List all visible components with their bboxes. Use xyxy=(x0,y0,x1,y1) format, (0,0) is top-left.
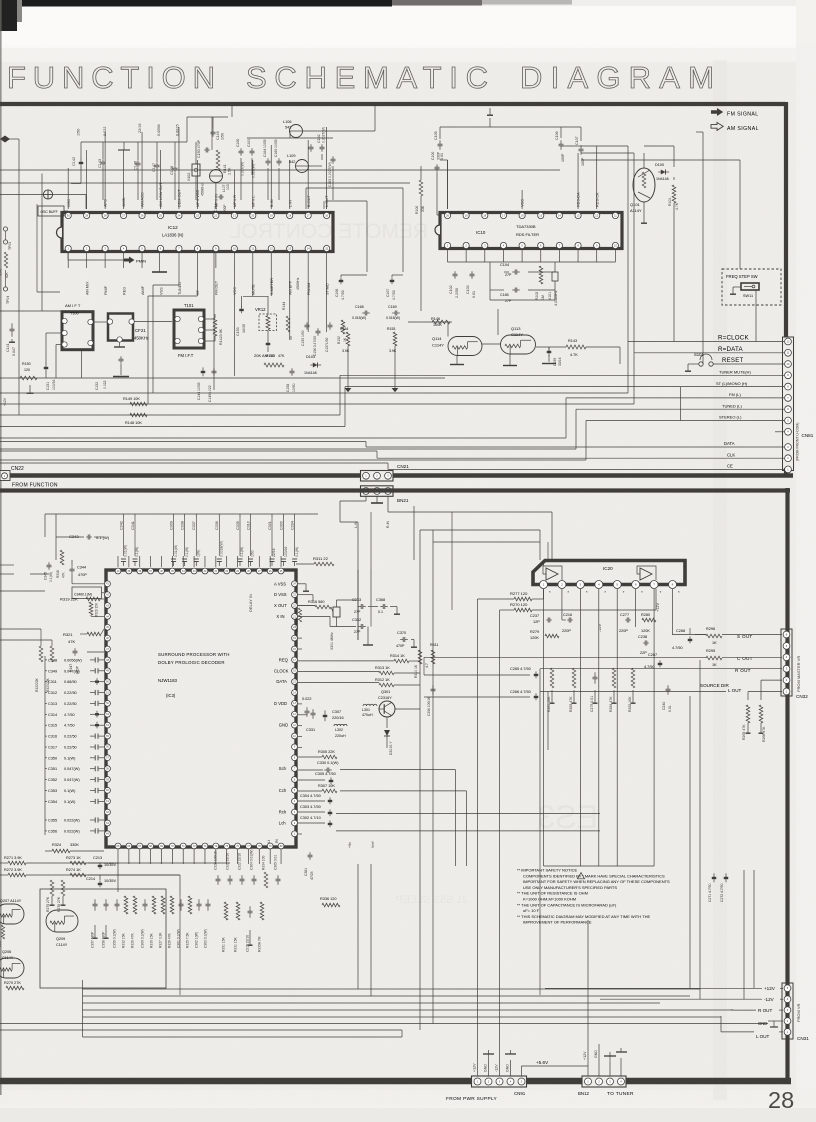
pin 52 IC3 xyxy=(105,700,111,706)
pin 1 IC3 xyxy=(292,831,298,837)
capacitor C347 xyxy=(69,648,80,674)
resistor S142 82K xyxy=(0,252,9,278)
resistor R278 21K xyxy=(0,925,5,947)
pin 28 IC3 xyxy=(246,568,252,574)
resistor R330 xyxy=(150,896,156,948)
pin 18 IC12 xyxy=(287,200,293,219)
pin 34 IC3 xyxy=(180,568,186,574)
scanner left edge line xyxy=(0,0,2,1095)
pin 28 IC12 xyxy=(102,199,108,219)
pin 17 IC10 xyxy=(500,212,506,218)
resistor R321 xyxy=(63,629,104,644)
resistor R324 xyxy=(45,843,104,853)
pin 25 IC12 xyxy=(157,182,163,219)
pin 10 IC3 xyxy=(292,733,298,739)
pin 7 IC10 xyxy=(556,242,562,248)
pin 3 IC12 xyxy=(102,245,108,295)
pin 58 IC3 xyxy=(105,766,111,772)
capacitor C370 xyxy=(396,631,417,648)
capacitor C311 xyxy=(45,678,104,685)
resistor R351 xyxy=(222,902,228,952)
inductor L109 xyxy=(287,154,309,173)
connector CN81 xyxy=(783,337,794,473)
capacitor C317 xyxy=(45,744,104,749)
pin 12 IC3 xyxy=(292,711,298,717)
capacitor C315 xyxy=(45,722,104,729)
pin 23 IC3 xyxy=(274,592,297,598)
pin 13 IC3 xyxy=(274,700,297,706)
pin 80 IC3 xyxy=(278,843,284,849)
inductor L302 xyxy=(334,724,347,738)
capacitor C359 xyxy=(113,899,120,948)
osc buffer box xyxy=(38,206,68,216)
pin 35 IC3 xyxy=(169,568,175,574)
capacitor C163 xyxy=(328,156,336,187)
pin 72 IC3 xyxy=(191,843,197,849)
pin 73 IC3 xyxy=(202,843,208,849)
resistor R266 xyxy=(759,705,767,742)
wire top cluster rails xyxy=(232,106,375,200)
capacitor C303 xyxy=(300,805,332,816)
pin 78 IC3 xyxy=(256,843,262,849)
capacitor C153 xyxy=(236,296,246,336)
pin 12 IC12 xyxy=(268,245,274,295)
wire bus y170 xyxy=(0,169,560,171)
wire DATA xyxy=(0,442,784,448)
ground C368 xyxy=(390,607,400,615)
wire C265 line xyxy=(424,657,530,675)
capacitor C162 xyxy=(317,127,326,152)
wire STEREO L xyxy=(0,421,784,461)
note important safety notice xyxy=(517,868,670,925)
pin 65 IC3 xyxy=(115,843,121,849)
pin 11 IC10 xyxy=(612,212,618,218)
pin 8 IC10 xyxy=(575,242,581,248)
transistor Q207 A114Y xyxy=(0,899,24,924)
pin 3 IC3 xyxy=(279,809,298,815)
wire R277 left xyxy=(478,589,544,1076)
resistor R142 xyxy=(204,314,223,345)
pin 23 IC12 xyxy=(194,189,200,218)
capacitor C353 xyxy=(45,788,104,793)
ceramic filter CF21 xyxy=(107,314,149,348)
pin 39 IC3 xyxy=(126,568,132,574)
capacitor C354 xyxy=(45,799,104,804)
pin 2 IC12 xyxy=(84,245,90,295)
capacitor C310 xyxy=(246,514,254,566)
pin 79 IC3 xyxy=(267,843,273,849)
capacitor C358 xyxy=(102,899,109,948)
pin 33 IC3 xyxy=(191,568,197,574)
pin 47 IC3 xyxy=(105,646,111,652)
pin 19 IC10 xyxy=(463,212,469,218)
node FM input diamond xyxy=(0,136,10,143)
pin 30 IC3 xyxy=(224,568,230,574)
transistor Q301 C2316Y xyxy=(378,690,395,717)
pin 48 IC3 xyxy=(105,657,111,663)
capacitor cap 0.022 xyxy=(302,697,312,717)
label R OUT CN31 xyxy=(732,1008,783,1013)
pin 60 IC3 xyxy=(105,787,111,793)
pin 75 IC3 xyxy=(224,843,230,849)
transistor Q206 C114Y xyxy=(0,950,24,978)
resistor R150 xyxy=(20,362,37,380)
capacitor C368 xyxy=(376,598,388,614)
wire FM L xyxy=(0,398,784,438)
capacitor C267 xyxy=(644,653,662,669)
pin 41 IC3 xyxy=(105,581,111,587)
resistor R327 xyxy=(159,896,165,948)
capacitor C338 xyxy=(180,514,188,566)
capacitor C168 xyxy=(352,305,370,320)
wire CLK xyxy=(0,451,784,458)
resistor R279 xyxy=(530,630,559,640)
pin 21 IC3 xyxy=(276,614,297,620)
connector CN32 xyxy=(781,629,792,696)
wire Sch route xyxy=(340,769,456,771)
capacitor C307 xyxy=(323,710,344,721)
capacitor C363 xyxy=(204,899,211,948)
pin 36 IC3 xyxy=(159,568,165,574)
wire BN21 pin3 drop xyxy=(388,496,552,610)
crystal X101 xyxy=(548,272,558,306)
wire TUNER MUTE xyxy=(0,375,784,415)
pin 68 IC3 xyxy=(148,843,154,849)
label L OUT CN31 xyxy=(721,1032,783,1039)
resistor R326 xyxy=(168,896,174,948)
resistor R277 xyxy=(510,591,532,601)
pin 29 IC12 xyxy=(84,212,90,218)
pin 22 IC12 xyxy=(213,194,219,219)
pin 6 IC3 xyxy=(292,777,298,783)
wire pin17 loop to C167 xyxy=(306,188,403,272)
wire transistor row xyxy=(408,309,620,366)
resistor R331 xyxy=(234,902,240,952)
wire L OUT line xyxy=(540,691,782,693)
PMIN signal arrow xyxy=(68,252,146,264)
capacitor C348 xyxy=(45,657,104,662)
wire CN81 pin4 drop xyxy=(775,431,784,433)
resistor R323 xyxy=(46,640,54,692)
wire CN91 pin risers xyxy=(473,1050,522,1076)
pin 40 IC3 xyxy=(115,568,121,574)
resistor R275 xyxy=(46,880,55,912)
resistor R273 xyxy=(66,856,86,865)
wire IC3 top pin stubs xyxy=(118,556,281,567)
pin 20 IC3 xyxy=(292,624,298,630)
pin 18 IC3 xyxy=(292,646,298,652)
resistor R320 xyxy=(89,602,104,617)
potentiometer VR12 xyxy=(243,296,277,358)
resistor R281 xyxy=(547,668,555,712)
resistor R314 xyxy=(298,654,420,663)
capacitor C151 xyxy=(44,363,56,390)
resistor R149 xyxy=(123,397,147,406)
tuner block border top xyxy=(0,102,786,106)
pin 19 IC3 xyxy=(292,635,298,641)
capacitor C158 xyxy=(286,368,296,392)
label +12V CN31 xyxy=(545,986,783,991)
wire IC20 pin drops xyxy=(544,589,673,866)
connector CN91 xyxy=(472,1076,527,1096)
capacitor C271 xyxy=(708,873,716,902)
pin 50 IC3 xyxy=(105,679,111,685)
pin 30 IC12 xyxy=(65,199,71,219)
resistor R274 xyxy=(66,868,86,877)
capacitor C333 xyxy=(352,598,366,614)
capacitor C365 xyxy=(274,855,281,885)
pin 56 IC3 xyxy=(105,744,111,750)
signal ground T row xyxy=(345,346,352,392)
wire Q101 rails xyxy=(561,132,740,364)
resistor R305 xyxy=(298,750,337,759)
capacitor C300 xyxy=(279,514,287,566)
resistor R270 xyxy=(510,602,532,612)
pin 27 IC12 xyxy=(120,197,126,218)
wire IC10 bottom loop xyxy=(490,262,555,300)
capacitor C156 xyxy=(313,328,321,356)
pin 71 IC3 xyxy=(180,843,186,849)
wire IC12 top pin risers xyxy=(68,127,326,209)
capacitor C165 xyxy=(274,139,282,165)
capacitor C352 xyxy=(45,777,104,782)
ghost bleedthrough text xyxy=(230,220,598,906)
capacitor C350 xyxy=(45,755,104,760)
pin 15 IC10 xyxy=(538,212,544,218)
capacitor C154 xyxy=(214,195,227,215)
capacitor C265 xyxy=(510,667,538,678)
connector CN31 xyxy=(782,983,793,1039)
pin 3 IC20 xyxy=(576,581,588,596)
pin 11 IC3 xyxy=(279,722,298,728)
op-amp IC12 LA1836 body xyxy=(57,213,334,252)
capacitor C335 xyxy=(236,514,244,566)
label +5.6V xyxy=(522,1060,589,1076)
wire R=CLOCK xyxy=(0,342,784,394)
resistor R101 xyxy=(668,185,679,210)
pin 20 IC10 xyxy=(444,212,450,218)
resistor R325 xyxy=(186,896,192,948)
surround block border bottom xyxy=(0,1078,791,1085)
capacitor C150 xyxy=(197,117,212,158)
transistor Q209 C114Y xyxy=(46,910,78,947)
capacitor C266 xyxy=(510,690,538,700)
pin 27 IC3 xyxy=(256,568,262,574)
pin 32 IC3 xyxy=(202,568,208,574)
ground left bus xyxy=(3,385,34,406)
resistor R153 xyxy=(387,327,397,353)
connector BN12 xyxy=(578,1076,626,1096)
resistor R282 xyxy=(628,668,636,712)
pin 61 IC3 xyxy=(105,798,111,804)
pin 1 IC10 xyxy=(444,242,450,248)
pin 9 IC3 xyxy=(292,744,298,750)
pin 37 IC3 xyxy=(148,568,154,574)
diode D103 xyxy=(304,355,321,375)
switch box FREQ STEP SW xyxy=(722,269,781,342)
resistor R148 xyxy=(125,413,147,425)
node crossed circle xyxy=(0,190,86,209)
wire pin16 loop to C166 xyxy=(324,201,367,272)
resistor R145 xyxy=(264,354,285,367)
wire IC3 bottom pin stubs xyxy=(118,849,281,864)
op-amp IC20 body xyxy=(533,561,685,585)
enclosure box Q209 xyxy=(40,889,166,988)
pin 51 IC3 xyxy=(105,690,111,696)
wire op-amp feedback xyxy=(543,562,656,580)
capacitor C334 xyxy=(290,514,298,566)
pin 26 IC12 xyxy=(139,192,145,219)
wire cluster rail y142 xyxy=(81,141,187,143)
resistor R100 xyxy=(415,166,425,311)
pin 1 IC12 xyxy=(65,245,71,251)
enclosure osc buffer xyxy=(37,204,60,292)
pin 2 IC20 xyxy=(558,581,570,596)
surround block border top xyxy=(0,488,790,492)
capacitor C305 xyxy=(315,772,336,784)
pin 8 IC12 xyxy=(194,245,200,295)
scanner top edge bar xyxy=(0,0,392,7)
label Lt Rt +9v Vref xyxy=(267,839,375,848)
resistor R313 xyxy=(298,666,420,675)
resistor R336 xyxy=(320,897,340,907)
pin 74 IC3 xyxy=(213,843,219,849)
pin 5 IC3 xyxy=(279,787,298,793)
wire BN21 pin1 drop xyxy=(340,496,366,522)
capacitor C106 xyxy=(555,131,565,162)
resistor R307 xyxy=(298,784,337,793)
capacitor C155 xyxy=(301,322,310,346)
resistor R319 xyxy=(60,597,104,602)
resistor R311 22 xyxy=(296,556,334,566)
capacitor C320 xyxy=(214,851,221,885)
pin 38 IC3 xyxy=(137,568,143,574)
resistor R334 xyxy=(262,856,268,888)
pin 21 IC12 xyxy=(231,195,237,219)
resistor R144 xyxy=(282,302,293,340)
capacitor C149 xyxy=(211,117,225,140)
pin 13 IC10 xyxy=(575,192,581,219)
resistor R312 xyxy=(298,678,420,687)
wire R OUT line xyxy=(540,668,782,670)
ground C332 xyxy=(363,640,373,645)
pin 7 IC3 xyxy=(279,766,298,772)
inductor L106 xyxy=(283,120,303,138)
pin 8 IC20 xyxy=(669,581,681,596)
pin 49 IC3 xyxy=(105,668,111,674)
capacitor C161 xyxy=(247,139,256,178)
pin 14 IC12 xyxy=(305,245,311,295)
wire IC12 bottom pin stubs xyxy=(68,252,326,376)
test point TP04 xyxy=(3,270,10,304)
pin 11 IC12 xyxy=(250,245,256,295)
resistor R315 xyxy=(295,608,302,632)
resistor R322 xyxy=(35,634,43,692)
pin 45 IC3 xyxy=(105,624,111,630)
tuner block border bottom bus bar xyxy=(0,473,793,478)
capacitor C145 xyxy=(208,368,217,402)
wire bottom bus lines xyxy=(0,980,768,1037)
capacitor C108 xyxy=(500,288,520,304)
transistor Q113 C114Y xyxy=(501,326,536,354)
resistor R280 xyxy=(641,613,656,633)
wire misc verticals xyxy=(358,387,681,1030)
wire pin7 TUNED stair xyxy=(153,252,179,393)
capacitor C302 xyxy=(300,816,332,827)
capacitor C164 xyxy=(263,139,271,165)
pin 4 IC10 xyxy=(500,242,506,248)
resistor R270b xyxy=(4,981,24,990)
capacitor C100 xyxy=(431,151,441,215)
ground A VSS xyxy=(298,584,309,591)
resistor R283 xyxy=(569,668,577,712)
pin 9 IC10 xyxy=(594,242,600,248)
pin 6 IC10 xyxy=(538,242,544,248)
wire ST MONO xyxy=(0,387,784,427)
resistor R310 xyxy=(414,650,422,678)
pin 17 IC3 xyxy=(279,657,298,663)
wire Cch route xyxy=(340,790,467,792)
resistor R296 xyxy=(706,627,722,645)
capacitor C322 xyxy=(238,853,245,885)
wire IC10 top rails xyxy=(440,118,581,209)
capacitor C349 xyxy=(45,668,104,673)
surround block border right xyxy=(785,488,789,1083)
capacitor C216 xyxy=(562,613,573,633)
op-amp IC10 TDA7330B body xyxy=(435,213,622,249)
capacitor C306 xyxy=(427,685,436,716)
inductor L301 xyxy=(362,704,377,717)
transistor Q101 A114Y xyxy=(630,168,655,213)
capacitor C147 xyxy=(152,124,161,200)
capacitor C309 xyxy=(169,514,177,566)
capacitor C268 xyxy=(672,629,692,650)
capacitor C357 xyxy=(91,899,98,948)
pin 5 IC20 xyxy=(613,581,625,596)
resistor R265 xyxy=(742,705,751,740)
capacitor C316 xyxy=(45,734,104,739)
wire left riser x42 xyxy=(41,174,43,312)
pin 5 IC12 xyxy=(139,245,145,295)
pin 46 IC3 xyxy=(105,635,111,641)
capacitor C313 xyxy=(45,701,104,706)
capacitor C381 xyxy=(304,852,314,880)
pin 16 IC10 xyxy=(519,199,525,219)
legend FM SIGNAL arrow xyxy=(711,108,723,116)
capacitor C341 xyxy=(131,514,139,566)
tuner block border right lower xyxy=(784,468,788,476)
stub antenna xyxy=(118,142,130,150)
diode D301 xyxy=(384,717,393,755)
pin 10 IC10 xyxy=(612,242,618,248)
pin 25 IC3 xyxy=(278,568,284,574)
pin 7 IC20 xyxy=(650,581,662,596)
capacitor C351 xyxy=(45,766,104,771)
resistor R143 xyxy=(566,339,586,357)
capacitor C304 xyxy=(298,794,332,804)
pin 76 IC3 xyxy=(235,843,241,849)
wire IC3 top rail xyxy=(45,514,318,537)
capacitor C356 xyxy=(45,828,104,833)
pin 55 IC3 xyxy=(105,733,111,739)
pin 6 IC12 xyxy=(157,245,163,295)
wire BN12 pin risers xyxy=(583,920,627,1076)
wire C266 line xyxy=(424,696,530,698)
pin 53 IC3 xyxy=(105,711,111,717)
pin 7 IC12 xyxy=(176,245,182,295)
label -12V CN31 xyxy=(600,997,783,1002)
pin 19 IC12 xyxy=(268,199,274,218)
